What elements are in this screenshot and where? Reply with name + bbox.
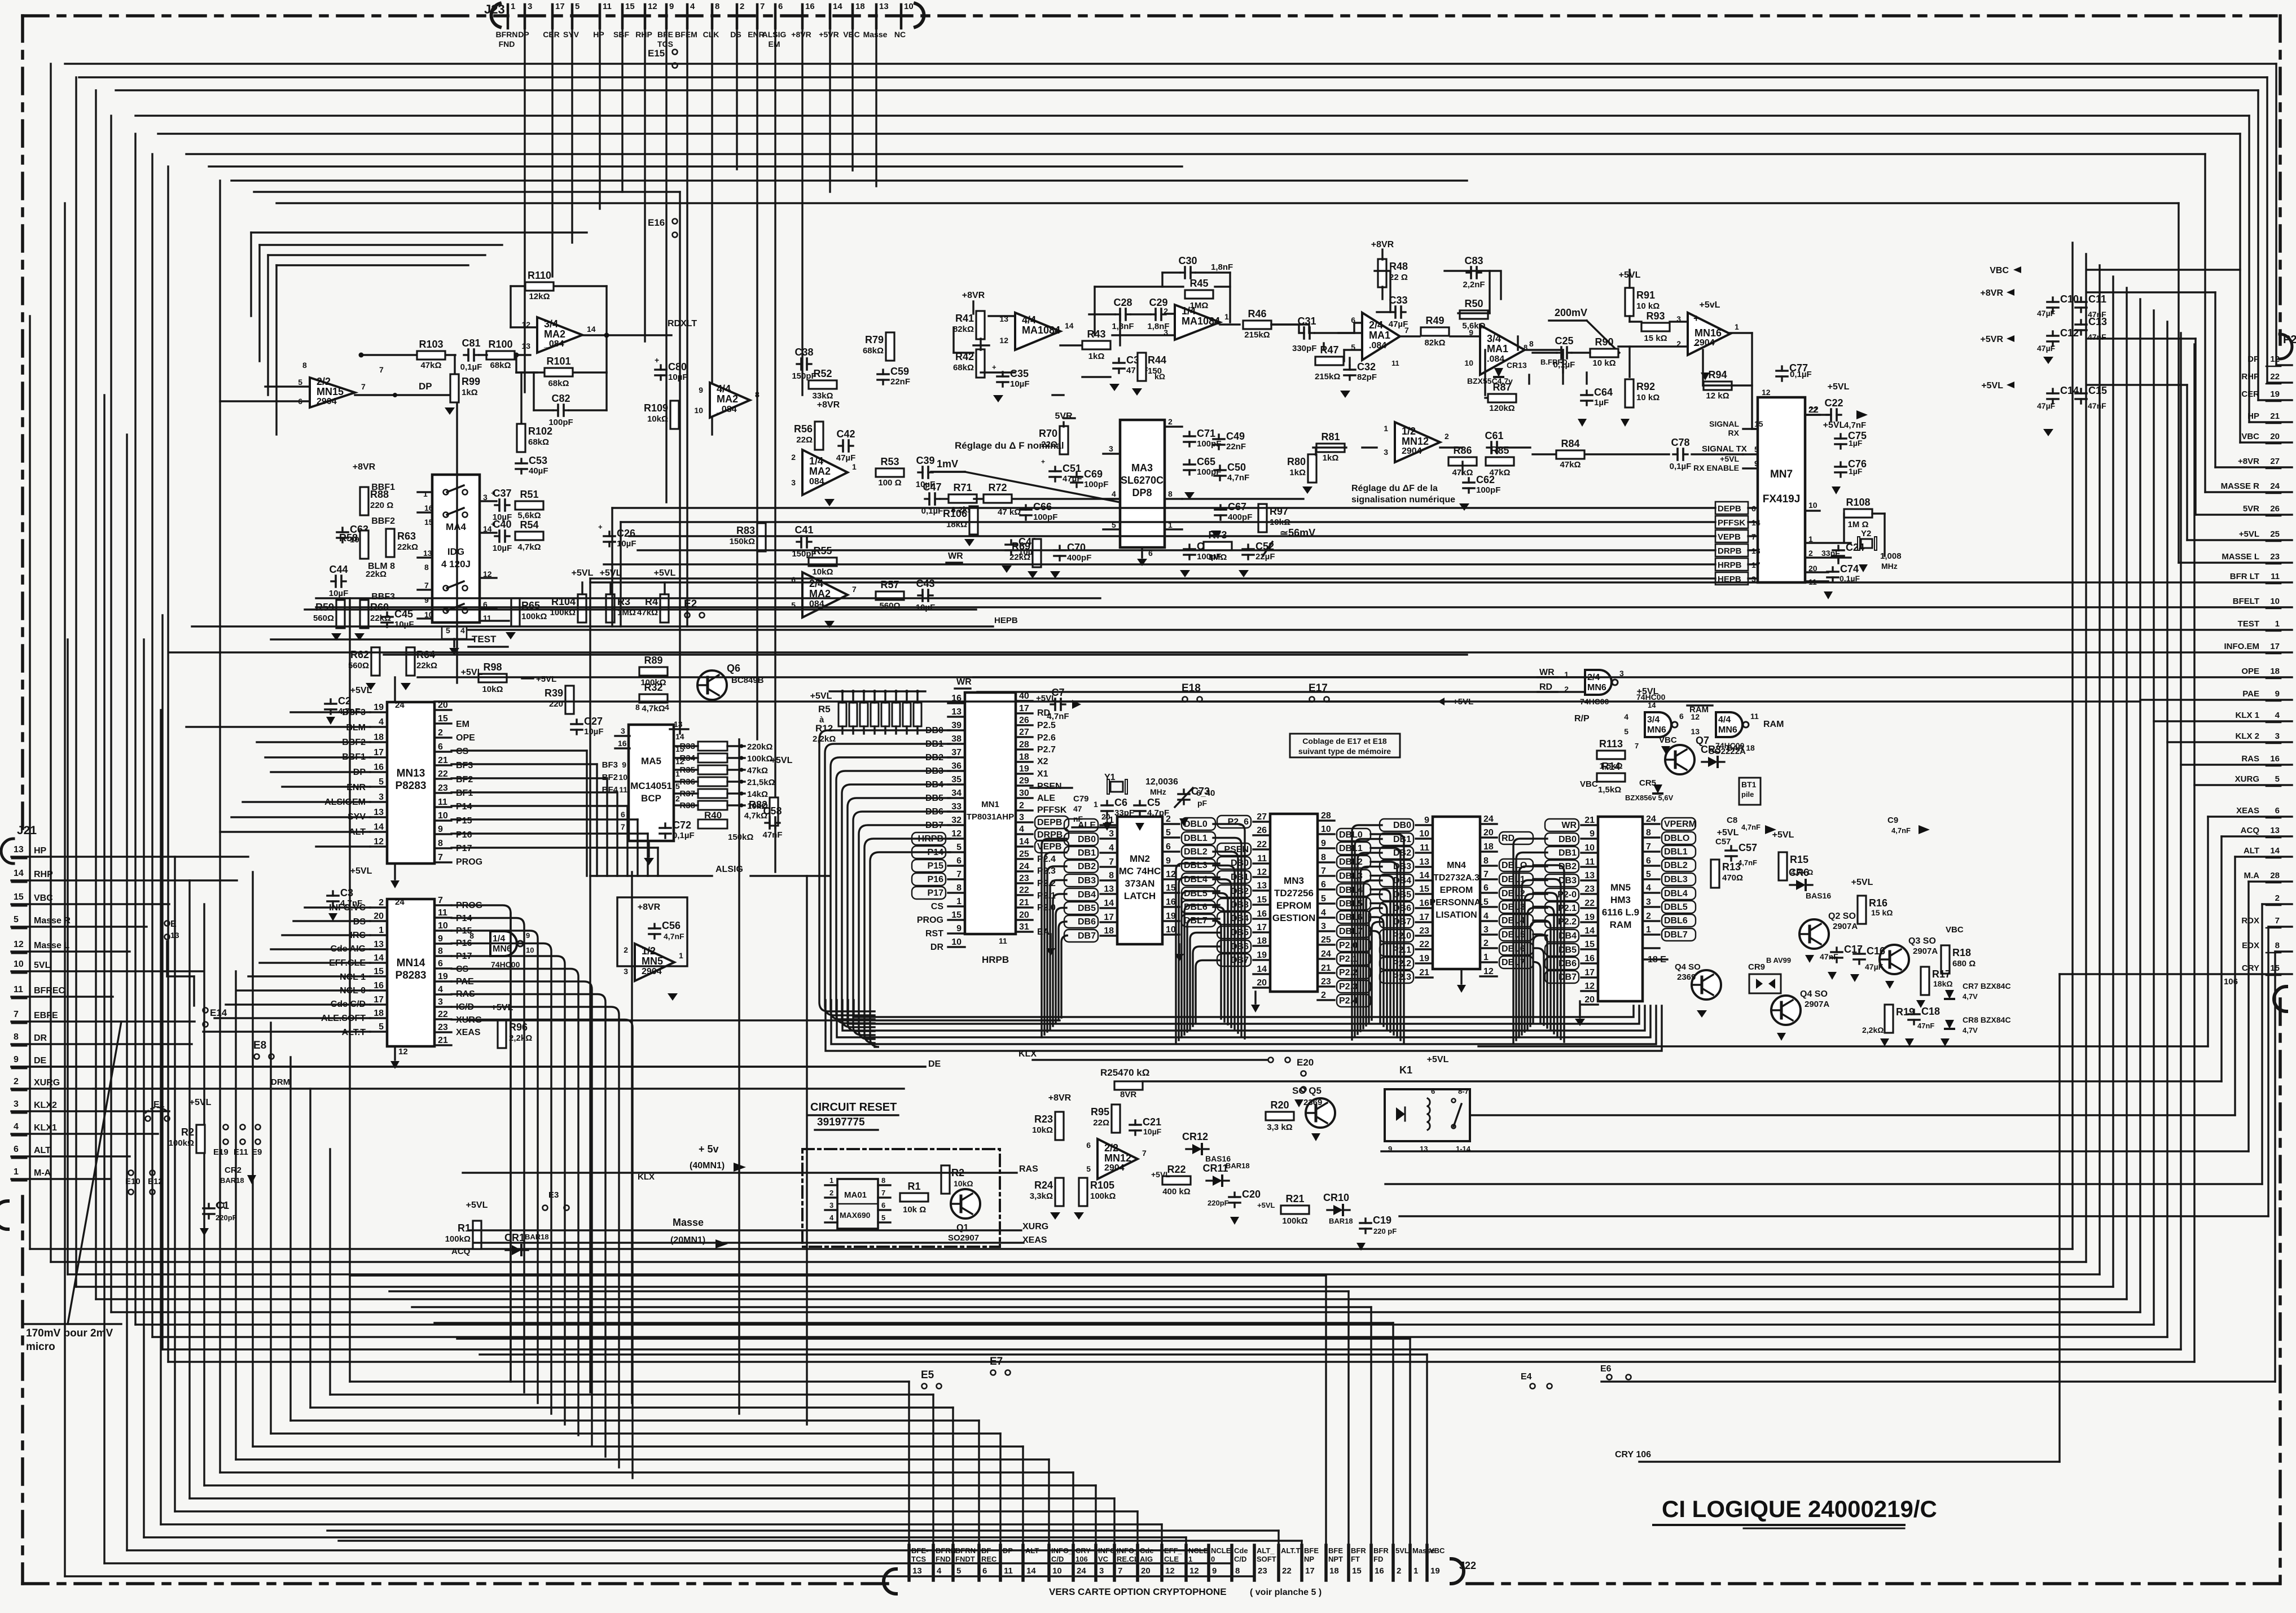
svg-text:R71: R71 bbox=[953, 482, 972, 493]
svg-text:4: 4 bbox=[829, 1213, 834, 1222]
svg-text:MN6: MN6 bbox=[493, 944, 512, 954]
svg-text:3: 3 bbox=[1483, 925, 1489, 935]
svg-text:ALT.T: ALT.T bbox=[1281, 1546, 1300, 1555]
svg-text:7: 7 bbox=[1142, 1149, 1147, 1158]
svg-text:5: 5 bbox=[298, 378, 302, 387]
svg-text:2/4: 2/4 bbox=[1369, 319, 1383, 331]
svg-text:16: 16 bbox=[1166, 897, 1176, 907]
svg-text:+5VL: +5VL bbox=[1772, 830, 1794, 840]
svg-text:17: 17 bbox=[1257, 923, 1267, 932]
svg-text:13: 13 bbox=[374, 808, 384, 817]
svg-text:RE.CL: RE.CL bbox=[1117, 1555, 1139, 1563]
svg-text:RAS: RAS bbox=[2241, 754, 2259, 764]
svg-text:23: 23 bbox=[1419, 926, 1429, 936]
svg-text:DBL3: DBL3 bbox=[1339, 871, 1363, 881]
svg-text:DR: DR bbox=[930, 943, 944, 952]
svg-text:HP: HP bbox=[2247, 411, 2259, 421]
svg-text:BZX856v 5,6V: BZX856v 5,6V bbox=[1625, 794, 1674, 802]
svg-text:14kΩ: 14kΩ bbox=[747, 790, 768, 799]
svg-text:24: 24 bbox=[395, 897, 405, 907]
svg-text:DBL6: DBL6 bbox=[1184, 902, 1208, 912]
svg-text:C57: C57 bbox=[1739, 842, 1757, 853]
svg-text:DBL2: DBL2 bbox=[1184, 847, 1208, 857]
svg-text:2: 2 bbox=[2275, 893, 2280, 903]
svg-text:13: 13 bbox=[2270, 826, 2280, 835]
svg-text:18: 18 bbox=[1483, 842, 1494, 852]
svg-text:1: 1 bbox=[1483, 953, 1489, 962]
svg-text:C81: C81 bbox=[462, 337, 480, 349]
svg-text:2904: 2904 bbox=[642, 967, 662, 976]
svg-text:2904: 2904 bbox=[1104, 1163, 1125, 1173]
svg-text:MASSE L: MASSE L bbox=[2222, 552, 2259, 562]
svg-text:17: 17 bbox=[1419, 913, 1429, 922]
svg-text:37: 37 bbox=[951, 748, 962, 757]
svg-text:TCS: TCS bbox=[657, 40, 673, 49]
svg-text:1,8nF: 1,8nF bbox=[1147, 322, 1169, 331]
svg-text:4,7kΩ: 4,7kΩ bbox=[642, 704, 665, 713]
svg-text:4,7nF: 4,7nF bbox=[338, 707, 360, 716]
svg-text:2: 2 bbox=[1321, 990, 1326, 1000]
svg-text:CR5: CR5 bbox=[1639, 778, 1656, 788]
svg-text:10: 10 bbox=[438, 921, 448, 931]
svg-text:DBL7: DBL7 bbox=[1339, 927, 1363, 936]
svg-text:C58: C58 bbox=[763, 805, 782, 817]
svg-text:X1: X1 bbox=[1037, 769, 1048, 779]
svg-text:KLX 1: KLX 1 bbox=[2235, 711, 2259, 720]
svg-text:22kΩ: 22kΩ bbox=[366, 569, 387, 579]
svg-text:signalisation numérique: signalisation numérique bbox=[1351, 495, 1455, 505]
svg-text:DP: DP bbox=[1003, 1546, 1013, 1555]
svg-text:E19: E19 bbox=[213, 1147, 229, 1157]
svg-text:3: 3 bbox=[1646, 897, 1651, 907]
svg-text:R49: R49 bbox=[1425, 315, 1444, 326]
svg-text:R72: R72 bbox=[988, 482, 1007, 493]
svg-text:+8VR: +8VR bbox=[1371, 240, 1394, 249]
svg-text:10: 10 bbox=[14, 959, 24, 969]
svg-text:13: 13 bbox=[951, 707, 962, 717]
svg-text:R1: R1 bbox=[907, 1181, 920, 1192]
svg-text:10µF: 10µF bbox=[584, 727, 604, 737]
svg-text:10µF: 10µF bbox=[329, 589, 349, 598]
svg-text:82kΩ: 82kΩ bbox=[1424, 338, 1445, 348]
svg-text:+: + bbox=[491, 489, 495, 497]
svg-text:8-7: 8-7 bbox=[1458, 1087, 1469, 1095]
svg-text:4: 4 bbox=[1483, 911, 1489, 921]
svg-text:BAR18: BAR18 bbox=[1329, 1217, 1353, 1225]
svg-text:22Ω: 22Ω bbox=[1093, 1118, 1109, 1128]
svg-text:E15: E15 bbox=[648, 48, 665, 59]
svg-text:ALT: ALT bbox=[1025, 1546, 1039, 1555]
svg-text:1µF: 1µF bbox=[1594, 398, 1609, 407]
svg-text:SIGNAL TX: SIGNAL TX bbox=[1702, 444, 1747, 454]
svg-text:CR13: CR13 bbox=[1507, 361, 1527, 370]
svg-text:23: 23 bbox=[1584, 884, 1595, 894]
svg-text:MA4: MA4 bbox=[446, 521, 466, 532]
svg-text:C65: C65 bbox=[1197, 456, 1215, 467]
svg-text:22: 22 bbox=[2270, 372, 2280, 382]
svg-text:4,7nF: 4,7nF bbox=[1227, 473, 1249, 483]
svg-text:C35: C35 bbox=[1010, 368, 1029, 379]
svg-text:5: 5 bbox=[1166, 828, 1171, 838]
svg-text:25: 25 bbox=[2270, 529, 2280, 539]
svg-text:0,1µF: 0,1µF bbox=[673, 831, 695, 840]
svg-text:23: 23 bbox=[2270, 552, 2280, 562]
svg-text:CR7 BZX84C: CR7 BZX84C bbox=[1963, 981, 2011, 990]
svg-text:BF: BF bbox=[981, 1546, 991, 1555]
svg-text:11: 11 bbox=[1750, 712, 1759, 721]
svg-text:DBL7: DBL7 bbox=[1664, 930, 1688, 940]
svg-text:100kΩ: 100kΩ bbox=[1090, 1191, 1116, 1201]
svg-text:MN14: MN14 bbox=[397, 957, 425, 969]
svg-text:DBL6: DBL6 bbox=[1664, 916, 1688, 926]
svg-text:TP8031AHP: TP8031AHP bbox=[967, 812, 1014, 822]
svg-text:XURG: XURG bbox=[1022, 1222, 1048, 1231]
svg-text:VPERM: VPERM bbox=[1664, 819, 1696, 829]
svg-text:68kΩ: 68kΩ bbox=[863, 346, 884, 356]
svg-text:18: 18 bbox=[1329, 1566, 1339, 1576]
svg-text:C26: C26 bbox=[617, 528, 635, 539]
svg-text:C71: C71 bbox=[1197, 428, 1215, 439]
svg-text:1,008: 1,008 bbox=[1880, 551, 1902, 561]
svg-text:+8VR: +8VR bbox=[962, 291, 985, 300]
svg-text:E10: E10 bbox=[125, 1177, 141, 1186]
svg-text:R88: R88 bbox=[370, 489, 389, 500]
svg-text:1: 1 bbox=[423, 489, 428, 498]
svg-text:8: 8 bbox=[469, 931, 474, 940]
svg-text:7: 7 bbox=[1483, 870, 1489, 879]
svg-text:ALE: ALE bbox=[1037, 794, 1055, 803]
svg-text:10: 10 bbox=[1321, 825, 1331, 834]
svg-text:MA1: MA1 bbox=[1369, 330, 1390, 341]
svg-text:0: 0 bbox=[1211, 1555, 1215, 1563]
svg-text:DB5: DB5 bbox=[1078, 904, 1096, 913]
svg-text:8: 8 bbox=[1168, 489, 1173, 498]
svg-text:P17: P17 bbox=[928, 888, 944, 898]
svg-text:E4: E4 bbox=[1521, 1372, 1532, 1382]
svg-text:2: 2 bbox=[1019, 801, 1024, 810]
svg-text:DP8: DP8 bbox=[1132, 487, 1152, 498]
svg-text:7: 7 bbox=[1109, 857, 1114, 867]
svg-text:1: 1 bbox=[2275, 619, 2280, 629]
svg-text:HP: HP bbox=[593, 30, 604, 39]
svg-text:220pF: 220pF bbox=[1208, 1199, 1229, 1207]
svg-text:+: + bbox=[992, 363, 996, 371]
svg-text:Q3 SO: Q3 SO bbox=[1908, 936, 1936, 946]
svg-text:Cde: Cde bbox=[1234, 1546, 1248, 1555]
svg-text:VBC: VBC bbox=[1990, 266, 2009, 275]
svg-text:22kΩ: 22kΩ bbox=[1009, 553, 1030, 562]
svg-text:19: 19 bbox=[1419, 954, 1429, 963]
svg-text:10µF: 10µF bbox=[668, 372, 688, 382]
svg-text:SO2907: SO2907 bbox=[948, 1233, 979, 1243]
svg-text:INFO.EM: INFO.EM bbox=[2224, 642, 2260, 651]
svg-text:CIRCUIT RESET: CIRCUIT RESET bbox=[810, 1101, 897, 1114]
svg-text:13: 13 bbox=[521, 341, 530, 350]
svg-text:R84: R84 bbox=[1561, 438, 1579, 449]
svg-text:+8VR: +8VR bbox=[2238, 457, 2259, 466]
svg-text:RHP: RHP bbox=[2241, 372, 2259, 382]
svg-text:10: 10 bbox=[526, 946, 534, 954]
svg-text:13: 13 bbox=[879, 2, 889, 11]
svg-text:32: 32 bbox=[951, 816, 962, 825]
svg-text:R46: R46 bbox=[1248, 308, 1266, 319]
svg-text:DB5: DB5 bbox=[1231, 928, 1249, 937]
svg-text:MN6: MN6 bbox=[1718, 725, 1737, 735]
svg-text:LISATION: LISATION bbox=[1435, 910, 1477, 920]
svg-text:DEPB: DEPB bbox=[1718, 504, 1741, 514]
svg-text:C13: C13 bbox=[2088, 316, 2107, 327]
svg-text:C50: C50 bbox=[1227, 462, 1246, 473]
svg-text:R39: R39 bbox=[545, 687, 563, 699]
svg-text:C/D: C/D bbox=[1234, 1555, 1246, 1563]
svg-text:R25470 kΩ: R25470 kΩ bbox=[1100, 1067, 1149, 1078]
svg-text:47: 47 bbox=[1073, 804, 1082, 813]
svg-text:150kΩ: 150kΩ bbox=[730, 537, 755, 546]
svg-text:470Ω: 470Ω bbox=[1722, 873, 1743, 883]
svg-text:1: 1 bbox=[829, 1176, 833, 1185]
svg-text:10µF: 10µF bbox=[394, 620, 414, 629]
svg-text:5VR: 5VR bbox=[1055, 411, 1073, 421]
svg-text:C1: C1 bbox=[216, 1200, 226, 1209]
svg-text:R91: R91 bbox=[1636, 290, 1655, 301]
svg-text:15: 15 bbox=[1257, 895, 1267, 905]
svg-text:P2.6: P2.6 bbox=[1037, 733, 1056, 743]
svg-text:SIGNAL: SIGNAL bbox=[1709, 419, 1739, 428]
svg-text:40µF: 40µF bbox=[529, 466, 548, 476]
svg-text:C37: C37 bbox=[493, 488, 511, 499]
svg-text:68kΩ: 68kΩ bbox=[490, 361, 511, 370]
svg-text:19: 19 bbox=[2270, 389, 2280, 399]
svg-text:20: 20 bbox=[1141, 1566, 1151, 1576]
svg-text:15: 15 bbox=[438, 714, 448, 724]
svg-text:Masse: Masse bbox=[673, 1217, 704, 1228]
svg-text:10: 10 bbox=[1052, 1566, 1062, 1576]
svg-text:P2.7: P2.7 bbox=[1037, 745, 1056, 755]
svg-text:3,3 kΩ: 3,3 kΩ bbox=[1267, 1123, 1292, 1132]
svg-text:KLX2: KLX2 bbox=[34, 1101, 57, 1110]
svg-text:R32: R32 bbox=[644, 682, 662, 693]
svg-text:C15: C15 bbox=[2088, 385, 2107, 396]
svg-text:21: 21 bbox=[2270, 411, 2280, 421]
svg-text:4: 4 bbox=[937, 1566, 942, 1576]
svg-text:8: 8 bbox=[424, 563, 429, 572]
svg-text:+: + bbox=[1693, 313, 1700, 324]
svg-text:BFELT: BFELT bbox=[2233, 597, 2259, 606]
svg-text:22 Ω: 22 Ω bbox=[1389, 273, 1408, 282]
svg-text:12: 12 bbox=[1584, 981, 1595, 991]
svg-text:SL6270C: SL6270C bbox=[1121, 475, 1164, 486]
svg-text:HP: HP bbox=[34, 846, 47, 856]
svg-text:21: 21 bbox=[1584, 816, 1595, 825]
svg-text:BF3: BF3 bbox=[602, 760, 618, 770]
svg-text:BFE: BFE bbox=[657, 30, 673, 39]
svg-text:R41: R41 bbox=[955, 313, 974, 324]
svg-text:28: 28 bbox=[1019, 740, 1029, 749]
svg-text:+5VL: +5VL bbox=[1851, 878, 1873, 887]
svg-text:7: 7 bbox=[760, 2, 765, 11]
svg-text:R100: R100 bbox=[488, 339, 512, 350]
svg-text:+: + bbox=[655, 356, 659, 365]
svg-text:BT1: BT1 bbox=[1741, 780, 1757, 789]
svg-text:B AV99: B AV99 bbox=[1766, 956, 1791, 965]
svg-text:20: 20 bbox=[2270, 432, 2280, 441]
svg-text:2904: 2904 bbox=[1402, 446, 1422, 456]
svg-text:6: 6 bbox=[1166, 842, 1171, 852]
svg-text:9: 9 bbox=[669, 2, 674, 11]
svg-text:R20: R20 bbox=[1270, 1099, 1289, 1111]
svg-text:1kΩ: 1kΩ bbox=[1289, 468, 1306, 477]
svg-text:18kΩ: 18kΩ bbox=[1933, 979, 1953, 988]
svg-text:15: 15 bbox=[1352, 1566, 1362, 1576]
svg-text:P2_6: P2_6 bbox=[1228, 817, 1249, 827]
svg-text:10: 10 bbox=[1419, 829, 1429, 839]
svg-text:22: 22 bbox=[1419, 940, 1429, 949]
svg-text:5: 5 bbox=[956, 843, 962, 852]
svg-text:100kΩ: 100kΩ bbox=[169, 1138, 194, 1148]
svg-text:15: 15 bbox=[951, 910, 962, 920]
svg-text:EM: EM bbox=[456, 720, 469, 729]
svg-text:E16: E16 bbox=[648, 217, 665, 228]
svg-text:2369: 2369 bbox=[1677, 972, 1696, 982]
svg-text:DEPB: DEPB bbox=[1037, 818, 1062, 827]
svg-text:C8: C8 bbox=[1727, 816, 1737, 825]
svg-text:MN5: MN5 bbox=[642, 955, 663, 967]
svg-text:+5VL: +5VL bbox=[350, 686, 372, 695]
svg-text:NPT: NPT bbox=[1328, 1555, 1343, 1563]
svg-text:100pF: 100pF bbox=[1084, 480, 1108, 489]
svg-text:11: 11 bbox=[999, 936, 1007, 945]
svg-text:8: 8 bbox=[1321, 853, 1326, 862]
svg-text:P8283: P8283 bbox=[396, 970, 427, 981]
svg-text:8: 8 bbox=[715, 2, 719, 11]
svg-text:C79: C79 bbox=[1073, 794, 1089, 804]
svg-text:23: 23 bbox=[1019, 874, 1029, 883]
svg-text:Réglage du ΔF de la: Réglage du ΔF de la bbox=[1351, 484, 1438, 493]
svg-text:C80: C80 bbox=[668, 361, 687, 372]
svg-text:C38: C38 bbox=[794, 347, 813, 358]
svg-text:CRY: CRY bbox=[1075, 1546, 1091, 1555]
svg-text:VBC: VBC bbox=[1429, 1546, 1445, 1555]
svg-text:22: 22 bbox=[438, 1010, 448, 1019]
svg-text:1: 1 bbox=[511, 2, 515, 11]
svg-text:−: − bbox=[1693, 340, 1700, 351]
svg-text:8: 8 bbox=[755, 390, 760, 399]
svg-text:OPE: OPE bbox=[456, 733, 475, 743]
svg-text:C5: C5 bbox=[1147, 797, 1160, 808]
svg-text:TD27256: TD27256 bbox=[1274, 888, 1314, 898]
svg-text:5VL: 5VL bbox=[1395, 1546, 1409, 1555]
svg-text:CR12: CR12 bbox=[1182, 1131, 1208, 1142]
svg-text:C64: C64 bbox=[1594, 387, 1613, 398]
svg-text:1M Ω: 1M Ω bbox=[1847, 520, 1868, 529]
svg-text:R58: R58 bbox=[339, 532, 358, 543]
svg-text:4/4: 4/4 bbox=[1022, 314, 1036, 326]
svg-text:R18: R18 bbox=[1952, 947, 1971, 958]
svg-text:REC: REC bbox=[981, 1555, 997, 1563]
svg-text:10 kΩ: 10 kΩ bbox=[1592, 358, 1615, 368]
svg-text:220kΩ: 220kΩ bbox=[747, 742, 772, 752]
svg-text:FT: FT bbox=[1351, 1555, 1360, 1563]
svg-text:23: 23 bbox=[438, 1023, 448, 1032]
svg-text:+5VL: +5VL bbox=[572, 568, 594, 578]
svg-text:9: 9 bbox=[699, 385, 703, 395]
svg-text:DE: DE bbox=[928, 1059, 941, 1069]
svg-text:10 kΩ: 10 kΩ bbox=[1636, 301, 1660, 311]
svg-text:KLX1: KLX1 bbox=[34, 1123, 57, 1133]
svg-text:R50: R50 bbox=[1464, 298, 1483, 309]
svg-text:DBL1: DBL1 bbox=[1339, 844, 1363, 853]
svg-text:R44: R44 bbox=[1148, 354, 1166, 366]
svg-text:DBL2: DBL2 bbox=[1664, 861, 1688, 870]
svg-text:23: 23 bbox=[1258, 1566, 1267, 1576]
svg-text:C83: C83 bbox=[1464, 255, 1483, 266]
svg-text:C56: C56 bbox=[662, 920, 681, 931]
svg-text:MN15: MN15 bbox=[317, 386, 344, 397]
svg-text:VBC: VBC bbox=[1946, 925, 1964, 935]
svg-text:82pF: 82pF bbox=[1357, 372, 1377, 382]
svg-text:39197775: 39197775 bbox=[817, 1116, 865, 1128]
svg-text:14: 14 bbox=[1584, 926, 1595, 936]
svg-text:4: 4 bbox=[1109, 843, 1114, 853]
svg-text:10: 10 bbox=[1584, 843, 1595, 853]
svg-text:R1: R1 bbox=[458, 1222, 471, 1234]
svg-text:R12: R12 bbox=[815, 723, 833, 734]
svg-text:C67: C67 bbox=[1228, 501, 1246, 512]
svg-text:2/2: 2/2 bbox=[317, 376, 331, 387]
svg-text:11: 11 bbox=[619, 785, 627, 794]
svg-text:100pF: 100pF bbox=[1476, 485, 1500, 495]
svg-text:2: 2 bbox=[1808, 549, 1813, 558]
svg-text:Y2: Y2 bbox=[1861, 529, 1871, 538]
svg-text:2: 2 bbox=[740, 2, 744, 11]
svg-text:2907A: 2907A bbox=[1805, 1000, 1829, 1009]
svg-text:3: 3 bbox=[1109, 444, 1113, 453]
svg-text:P8283: P8283 bbox=[396, 780, 427, 792]
svg-text:11: 11 bbox=[1420, 843, 1429, 853]
svg-text:PSEN: PSEN bbox=[1037, 782, 1062, 791]
svg-text:17: 17 bbox=[374, 995, 384, 1005]
svg-text:+5VL: +5VL bbox=[1637, 687, 1659, 696]
svg-text:8: 8 bbox=[1646, 828, 1651, 838]
svg-text:6: 6 bbox=[982, 1566, 987, 1576]
svg-text:C28: C28 bbox=[1113, 297, 1132, 308]
svg-text:4,7V: 4,7V bbox=[1963, 1026, 1978, 1035]
svg-text:14: 14 bbox=[1104, 898, 1114, 908]
svg-text:C41: C41 bbox=[794, 524, 813, 536]
svg-text:XURG: XURG bbox=[34, 1078, 60, 1088]
svg-text:19: 19 bbox=[1257, 950, 1267, 960]
svg-text:10: 10 bbox=[1464, 358, 1473, 367]
svg-text:C19: C19 bbox=[1373, 1215, 1391, 1226]
svg-text:5: 5 bbox=[1624, 727, 1628, 736]
svg-text:13: 13 bbox=[912, 1566, 922, 1576]
svg-text:14: 14 bbox=[1065, 321, 1074, 330]
svg-text:3: 3 bbox=[379, 792, 384, 802]
svg-text:1µF: 1µF bbox=[1849, 467, 1863, 476]
svg-text:+5VL: +5VL bbox=[1151, 1170, 1170, 1179]
svg-text:14: 14 bbox=[374, 822, 384, 832]
svg-text:22kΩ: 22kΩ bbox=[397, 542, 418, 552]
svg-text:10: 10 bbox=[1166, 925, 1176, 935]
svg-text:10: 10 bbox=[694, 406, 703, 415]
svg-text:AIG: AIG bbox=[1140, 1555, 1153, 1563]
svg-text:R113: R113 bbox=[1599, 738, 1623, 749]
svg-text:+8VR: +8VR bbox=[1048, 1093, 1072, 1103]
svg-text:RDX: RDX bbox=[2241, 916, 2259, 926]
svg-text:R101: R101 bbox=[546, 356, 570, 367]
svg-text:4,7pF: 4,7pF bbox=[1147, 808, 1169, 818]
svg-text:MA5: MA5 bbox=[641, 756, 661, 766]
